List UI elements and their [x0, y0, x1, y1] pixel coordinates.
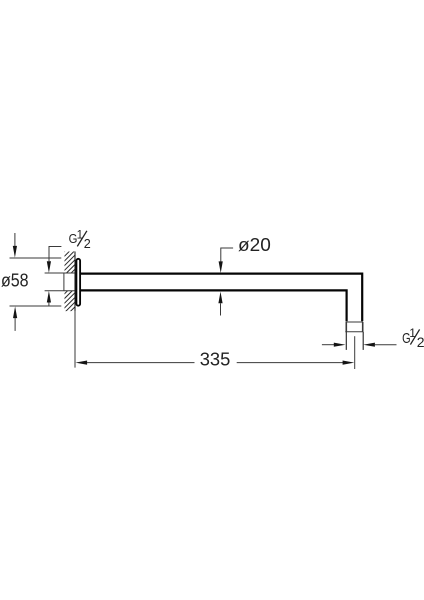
dimension 335 extension line right (tip centerline): [354, 336, 356, 369]
svg-text:1: 1: [409, 326, 416, 340]
dimension o58 bottom arrow: [13, 306, 17, 331]
svg-text:ø20: ø20: [238, 234, 271, 255]
thread relief on drop pipe: [345, 322, 363, 332]
shower arm pipe outer line (top + right): [81, 274, 362, 322]
label G1/2 right: [402, 326, 424, 350]
label G1/2 top: [69, 229, 91, 251]
inlet thread G1/2 behind wall: [45, 273, 75, 291]
wall face line: [74, 252, 76, 312]
dimension 335 extension line left (wall face continuation): [74, 311, 76, 368]
svg-text:2: 2: [417, 334, 424, 350]
dimension o58 top arrow: [13, 233, 17, 258]
dimension o58 extension lines: [10, 258, 62, 306]
threaded tip sides: [345, 332, 347, 350]
svg-text:335: 335: [200, 349, 231, 370]
dimension o20 bottom arrow: [218, 292, 222, 316]
dimension G1/2 top leader: [47, 247, 62, 307]
svg-text:ø58: ø58: [1, 269, 29, 290]
dimension G1/2 right arrows: [322, 343, 397, 347]
dimension o20 leader: [219, 248, 234, 273]
wall hatching: [58, 236, 80, 338]
shower arm pipe inner line (bottom + left of drop): [81, 290, 347, 321]
svg-text:2: 2: [84, 237, 91, 251]
dimension 335 line with arrows: [75, 361, 354, 365]
wall flange: [76, 259, 80, 306]
